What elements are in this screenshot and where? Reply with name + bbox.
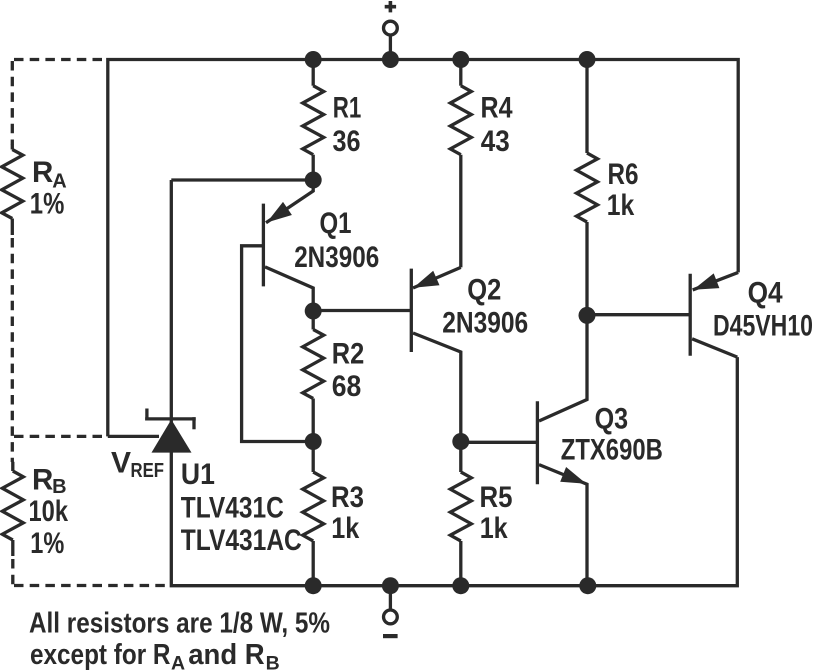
svg-text:10k: 10k	[29, 495, 69, 528]
svg-text:TLV431C: TLV431C	[181, 492, 284, 525]
svg-text:2N3906: 2N3906	[442, 307, 528, 340]
wire Q2 base line	[313, 309, 411, 312]
shunt reference U1	[145, 409, 196, 453]
svg-text:R6: R6	[608, 158, 639, 191]
svg-text:1%: 1%	[30, 188, 65, 221]
svg-text:43: 43	[481, 125, 510, 158]
label RB value	[29, 464, 69, 560]
svg-text:R2: R2	[332, 338, 365, 371]
transistor Q1	[242, 184, 314, 442]
label R5 value	[480, 481, 513, 545]
svg-text:U1: U1	[181, 458, 215, 491]
svg-text:R5: R5	[480, 481, 513, 514]
label R1 value	[333, 92, 362, 159]
resistor R2	[303, 311, 324, 442]
wire Q4 base line	[587, 313, 690, 316]
svg-text:R: R	[32, 156, 53, 189]
svg-text:R4: R4	[481, 92, 513, 125]
svg-text:36: 36	[333, 125, 361, 158]
svg-text:except for R: except for R	[30, 639, 171, 671]
svg-text:Q4: Q4	[748, 276, 784, 309]
node plus terminal	[382, 51, 399, 68]
node R1 top	[305, 51, 322, 68]
label Q4	[713, 276, 813, 342]
wire top rail	[108, 60, 738, 437]
svg-text:and R: and R	[188, 639, 265, 671]
resistor R3	[303, 442, 324, 586]
resistor R1	[303, 60, 324, 181]
node R1 bottom	[305, 172, 322, 189]
svg-text:1k: 1k	[607, 189, 635, 222]
svg-text:REF: REF	[131, 460, 165, 482]
svg-text:Q3: Q3	[595, 402, 629, 435]
node R6 top	[579, 51, 596, 68]
resistor R6	[577, 60, 598, 316]
node R2 bottom	[305, 433, 322, 450]
wire Q3 base line	[461, 441, 538, 444]
dashed wire bottom	[14, 584, 167, 587]
resistor R5	[450, 442, 471, 586]
node R2 top	[305, 303, 322, 320]
transistor Q4	[690, 272, 738, 357]
wire bottom rail	[171, 180, 737, 586]
node R4 top	[452, 51, 469, 68]
svg-text:R3: R3	[331, 481, 364, 514]
label Q2	[442, 274, 528, 340]
dashed wire left mid	[11, 238, 14, 462]
node Q3 emitter bottom	[579, 577, 596, 594]
svg-text:1k: 1k	[331, 512, 359, 545]
label VREF	[111, 446, 164, 482]
label R4 value	[481, 92, 513, 159]
svg-text:B: B	[266, 653, 280, 672]
label R3 value	[331, 481, 364, 545]
svg-text:2N3906: 2N3906	[294, 241, 379, 274]
svg-text:68: 68	[332, 370, 362, 403]
wire ref line	[108, 435, 159, 438]
resistor R4	[450, 60, 471, 268]
svg-text:1%: 1%	[30, 527, 64, 560]
svg-text:R: R	[32, 464, 53, 497]
svg-text:Q2: Q2	[467, 274, 501, 307]
node R6 bottom	[579, 307, 596, 324]
note text	[29, 608, 330, 672]
svg-text:V: V	[111, 446, 131, 479]
dashed wire left lower	[11, 559, 14, 586]
label RA value	[30, 156, 67, 221]
node R5 top	[452, 433, 469, 450]
svg-text:Q1: Q1	[320, 207, 352, 240]
svg-text:1k: 1k	[480, 512, 508, 545]
label R6 value	[607, 158, 639, 222]
label R2 value	[332, 338, 365, 404]
svg-text:A: A	[171, 653, 185, 672]
dashed wire top left	[14, 58, 106, 61]
terminal minus	[383, 586, 398, 639]
node minus terminal	[382, 577, 399, 594]
label Q3	[561, 402, 663, 466]
svg-text:TLV431AC: TLV431AC	[181, 524, 302, 557]
dashed wire left upper	[11, 61, 14, 145]
transistor Q2	[411, 267, 461, 441]
terminal plus	[384, 1, 398, 60]
label Q1	[294, 207, 379, 274]
resistor RB	[2, 462, 23, 556]
svg-text:D45VH10: D45VH10	[713, 309, 813, 342]
svg-text:R1: R1	[333, 92, 362, 125]
resistor RA	[2, 144, 23, 235]
svg-text:All resistors are 1/8 W, 5%: All resistors are 1/8 W, 5%	[29, 608, 330, 640]
svg-text:ZTX690B: ZTX690B	[561, 433, 663, 466]
wire node180 to U1	[171, 178, 313, 181]
transistor Q3	[537, 315, 587, 585]
node R3 bottom	[305, 577, 322, 594]
dashed wire mid horizontal	[14, 435, 104, 438]
label U1	[181, 458, 302, 557]
node R5 bottom	[452, 577, 469, 594]
